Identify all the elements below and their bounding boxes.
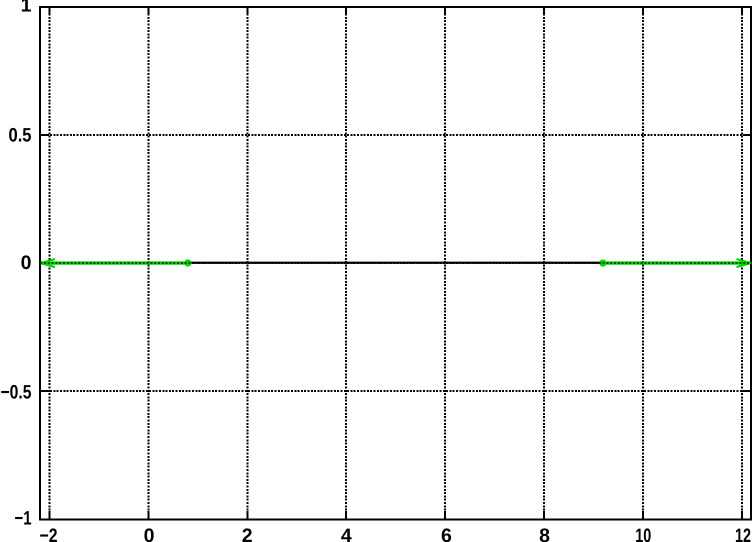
right ticks [743,134,751,136]
svg-text:−1: −1 [15,507,32,529]
svg-text:10: 10 [635,525,651,542]
svg-text:0.5: 0.5 [9,124,32,146]
svg-text:0: 0 [144,525,155,542]
left ticks [40,134,48,136]
series: black segment [0.8, 9.2] [188,262,603,264]
svg-text:−0.5: −0.5 [1,381,32,403]
series: right ray [9.2, +inf) green [603,261,751,264]
arrowhead left (pointing left at x-min) [41,259,55,267]
svg-text:6: 6 [441,525,452,542]
marker: green point at x=9.2 [599,260,606,267]
svg-text:4: 4 [341,525,352,542]
svg-text:2: 2 [242,525,253,542]
svg-text:0: 0 [21,252,32,274]
svg-text:−2: −2 [40,525,58,542]
vertical gridlines x=-2..12 [48,7,50,520]
svg-text:12: 12 [735,525,751,542]
svg-text:1: 1 [21,0,32,17]
marker: green point at x=0.8 [184,259,191,266]
dotted zero-line overlay [40,262,751,264]
arrowhead right (pointing right at x-max) [737,259,751,267]
svg-text:8: 8 [539,525,550,542]
horizontal gridlines y=0.5,0,-0.5 [40,134,751,136]
series: left ray (-inf, 0.8] green [41,261,188,264]
bottom ticks [48,511,50,520]
top ticks [48,7,50,15]
